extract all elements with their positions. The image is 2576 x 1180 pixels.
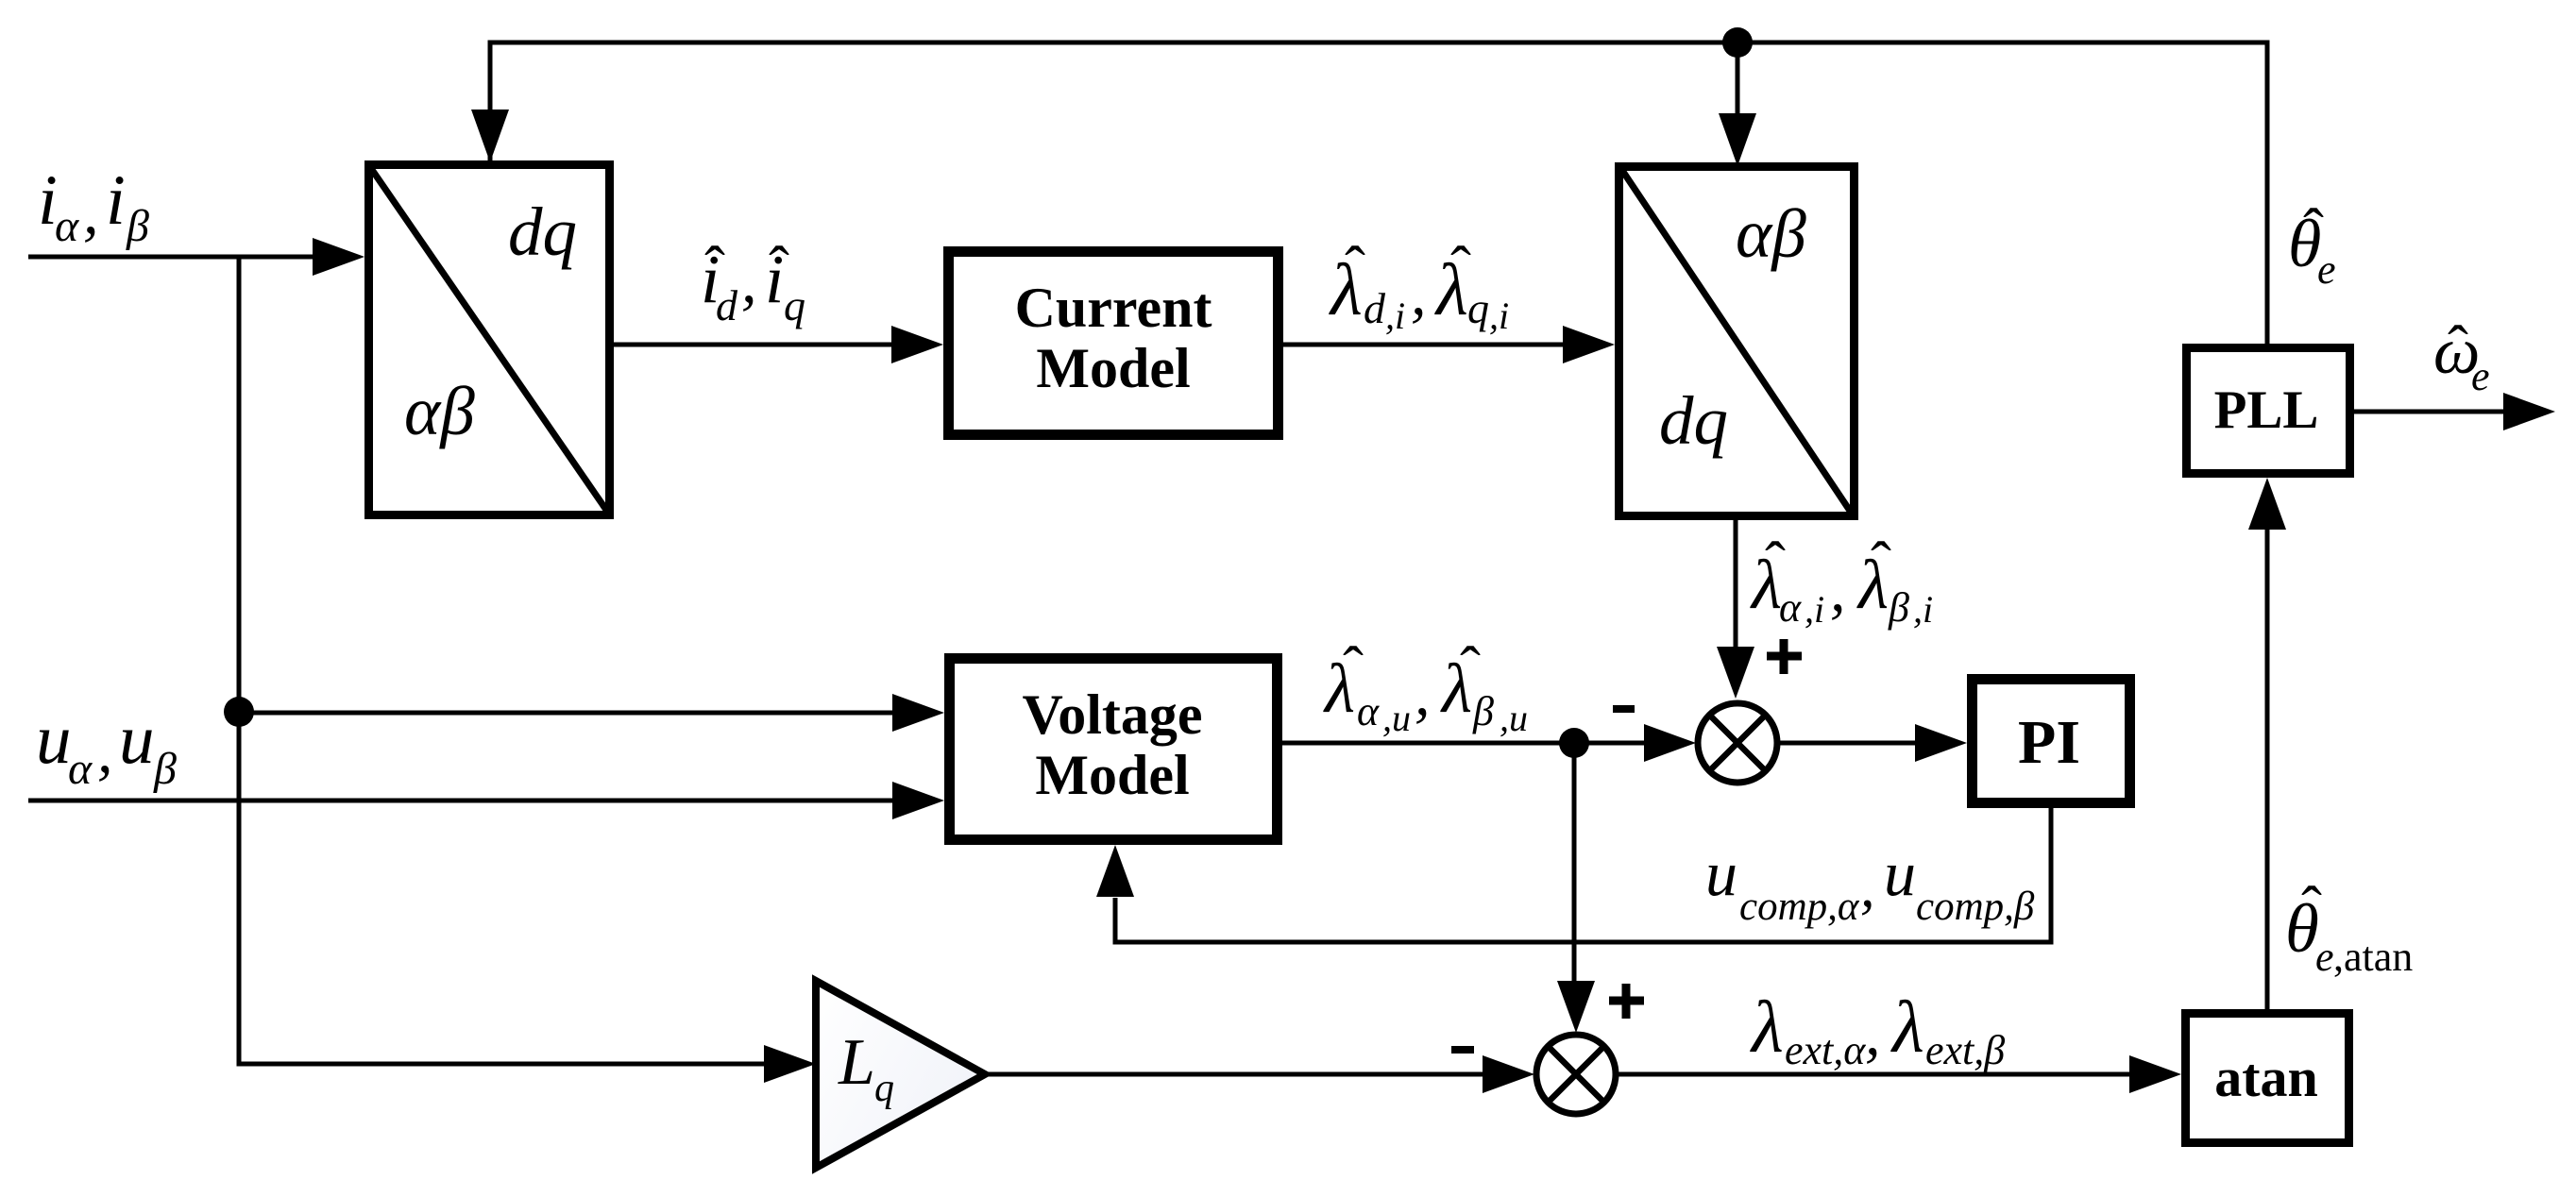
svg-text:i: i bbox=[106, 161, 126, 240]
wire PI output down, left, up into Voltage Model (u_comp feedback) bbox=[1115, 808, 2051, 942]
label minus sign at S1 input bbox=[1613, 705, 1635, 713]
arrow into dq/ab block left bbox=[313, 238, 364, 276]
svg-text:β: β bbox=[1472, 688, 1494, 734]
svg-text:ˆ: ˆ bbox=[1345, 234, 1365, 303]
svg-text:dq: dq bbox=[508, 194, 577, 270]
arrow up into Voltage Model bottom bbox=[1096, 845, 1134, 897]
label lambda_alpha,i lambda_beta,i with hats bbox=[1750, 530, 1933, 631]
node junction dot on top line above ab/dq block bbox=[1722, 27, 1753, 58]
summing junction S1 bbox=[1698, 703, 1777, 783]
svg-text:Voltage: Voltage bbox=[1022, 683, 1202, 746]
svg-text:,: , bbox=[1865, 1000, 1881, 1069]
label i_alpha, i_beta bbox=[38, 161, 149, 251]
arrow into dq/ab block top bbox=[471, 110, 509, 162]
svg-text:e: e bbox=[2315, 934, 2334, 980]
svg-text:Model: Model bbox=[1036, 337, 1190, 399]
svg-text:αβ: αβ bbox=[1736, 195, 1806, 272]
wire PLL output (omega) bbox=[2354, 410, 2504, 414]
label plus sign at S2 bbox=[1609, 984, 1644, 1019]
gain triangle Lq bbox=[816, 981, 985, 1168]
label u_comp,alpha u_comp,beta bbox=[1705, 837, 2035, 929]
svg-text:,atan: ,atan bbox=[2333, 934, 2413, 980]
svg-text:q: q bbox=[874, 1067, 894, 1110]
svg-text:,: , bbox=[741, 247, 757, 316]
wire u input line bbox=[28, 799, 895, 803]
block PLL B6 bbox=[2187, 348, 2350, 474]
arrow into ab/dq block top bbox=[1719, 113, 1756, 166]
svg-text:ext,α: ext,α bbox=[1785, 1027, 1866, 1073]
svg-text:,u: ,u bbox=[1500, 697, 1528, 739]
arrow into S2 left bbox=[1483, 1055, 1534, 1093]
arrow into S1 top bbox=[1717, 647, 1754, 699]
label theta_e,atan with hat bbox=[2285, 874, 2413, 980]
svg-text:u: u bbox=[36, 700, 72, 779]
arrow into Lq left bbox=[764, 1045, 816, 1083]
svg-text:L: L bbox=[838, 1026, 875, 1099]
block atan B7 bbox=[2186, 1014, 2349, 1143]
node junction dot on voltage-model output bbox=[1559, 728, 1589, 758]
svg-text:,: , bbox=[1860, 855, 1875, 919]
wire from dot down to S2 bbox=[1572, 743, 1577, 982]
svg-text:comp,α: comp,α bbox=[1739, 885, 1860, 929]
svg-text:dq: dq bbox=[1659, 382, 1728, 459]
svg-text:λ: λ bbox=[1890, 986, 1924, 1068]
arrow into Voltage Model lower input bbox=[892, 782, 944, 819]
summing junction S2 bbox=[1536, 1035, 1616, 1114]
svg-text:,i: ,i bbox=[1385, 295, 1405, 337]
svg-text:u: u bbox=[119, 700, 155, 779]
svg-text:,i: ,i bbox=[1913, 588, 1933, 631]
svg-text:atan: atan bbox=[2214, 1047, 2318, 1108]
svg-text:λ: λ bbox=[1750, 986, 1784, 1068]
label lambda_ext,alpha lambda_ext,beta bbox=[1750, 986, 2005, 1073]
wire S1 to PI bbox=[1780, 741, 1918, 746]
label omega_e with hat bbox=[2433, 313, 2490, 399]
block alphabeta/dq transform B3 bbox=[1619, 167, 1855, 516]
label minus sign at S2 input bbox=[1451, 1046, 1474, 1054]
svg-text:q: q bbox=[784, 281, 805, 329]
node junction dot on branch at voltage-model input row bbox=[224, 697, 254, 727]
svg-text:αβ: αβ bbox=[404, 373, 475, 449]
svg-text:Model: Model bbox=[1035, 744, 1189, 806]
arrow into ab/dq block left bbox=[1563, 326, 1615, 363]
wire Lq output to S2 bbox=[985, 1072, 1484, 1077]
block Current Model B2 bbox=[949, 252, 1279, 435]
label theta_e with hat (top) bbox=[2288, 196, 2336, 293]
arrow into PI left bbox=[1915, 724, 1967, 762]
wire Voltage Model output to S1 bbox=[1282, 741, 1647, 746]
svg-text:d: d bbox=[1364, 284, 1386, 332]
wire B3 output down to summing junction S1 bbox=[1734, 520, 1738, 649]
svg-text:,i: ,i bbox=[1489, 295, 1509, 337]
svg-text:,i: ,i bbox=[1805, 588, 1824, 631]
wire branch down from top line into ab/dq block bbox=[1736, 42, 1740, 115]
label u_alpha, u_beta bbox=[36, 700, 177, 794]
svg-text:,: , bbox=[1411, 260, 1427, 329]
svg-text:β: β bbox=[1888, 584, 1909, 631]
wire atan output up into PLL bbox=[2265, 529, 2270, 1009]
wire B1 output to Current Model bbox=[614, 343, 894, 347]
svg-text:e: e bbox=[2317, 246, 2336, 293]
wire S2 to atan bbox=[1618, 1072, 2132, 1077]
svg-text:q: q bbox=[1467, 284, 1489, 332]
wire vertical branch of i line down to Lq row bbox=[239, 257, 765, 1064]
wire i input line bbox=[28, 255, 315, 260]
svg-text:,: , bbox=[1830, 556, 1846, 625]
svg-text:,: , bbox=[1415, 660, 1431, 729]
svg-text:,u: ,u bbox=[1382, 697, 1411, 739]
arrow into atan left bbox=[2129, 1055, 2181, 1093]
svg-text:comp,β: comp,β bbox=[1916, 885, 2035, 929]
svg-text:PI: PI bbox=[2018, 708, 2080, 777]
svg-text:ext,β: ext,β bbox=[1925, 1027, 2005, 1073]
svg-text:α: α bbox=[1779, 584, 1802, 631]
svg-text:β: β bbox=[126, 201, 149, 251]
svg-text:β: β bbox=[153, 744, 177, 794]
arrow into Current Model left bbox=[891, 326, 943, 363]
arrow into Voltage Model upper input bbox=[892, 694, 944, 732]
svg-text:α: α bbox=[1357, 688, 1380, 734]
svg-text:α: α bbox=[55, 201, 79, 251]
arrow up into PLL bottom bbox=[2248, 478, 2286, 530]
svg-text:α: α bbox=[68, 744, 93, 794]
svg-text:ˆ: ˆ bbox=[2448, 313, 2468, 382]
label plus sign at S1 bbox=[1767, 639, 1802, 674]
label lambda_d,i lambda_q,i with hats bbox=[1329, 234, 1509, 337]
svg-text:,: , bbox=[83, 178, 99, 247]
label lambda_alpha,u lambda_beta,u with hats bbox=[1323, 634, 1528, 739]
svg-text:d: d bbox=[716, 281, 738, 329]
block PI B5 bbox=[1973, 680, 2130, 803]
svg-text:Current: Current bbox=[1015, 277, 1212, 339]
label i_d, i_q with hats bbox=[701, 234, 805, 329]
svg-text:PLL: PLL bbox=[2214, 380, 2319, 440]
arrow into S2 top bbox=[1557, 981, 1595, 1033]
wire top feedback line from PLL top to both transform blocks bbox=[490, 42, 2267, 344]
svg-text:u: u bbox=[1884, 837, 1916, 909]
block dq/alphabeta transform B1 bbox=[369, 165, 610, 515]
arrow omega output bbox=[2503, 393, 2555, 430]
svg-text:,: , bbox=[97, 717, 113, 786]
block Voltage Model B4 bbox=[950, 659, 1278, 840]
arrow into S1 left bbox=[1644, 724, 1696, 762]
wire i branch into Voltage Model upper input bbox=[239, 711, 895, 716]
svg-text:u: u bbox=[1705, 837, 1737, 909]
svg-text:e: e bbox=[2471, 353, 2490, 399]
wire Current Model to ab/dq block bbox=[1282, 343, 1566, 347]
